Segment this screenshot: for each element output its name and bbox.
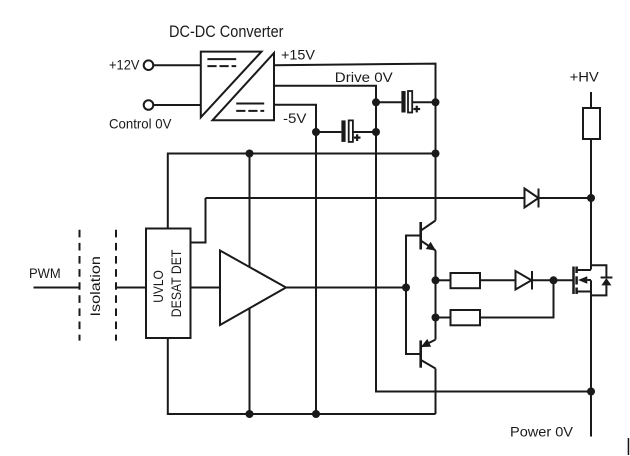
transistor Q1 emitter arrow [426, 242, 436, 251]
wire PWM input [34, 287, 80, 289]
wire top resistor to gate diode [480, 279, 516, 281]
transistor Q1 base bar [419, 222, 422, 250]
svg-text:Isolation: Isolation [87, 256, 103, 316]
node gate [550, 276, 558, 284]
wire amp supply vertical [249, 154, 251, 415]
DC-DC converter U1 upper triangle [201, 52, 262, 118]
resistor R2 [451, 310, 481, 325]
svg-text:DC-DC Converter: DC-DC Converter [169, 22, 284, 41]
diode D2 gate [516, 271, 532, 290]
wire push-pull output node [435, 250, 437, 339]
wire Control 0V input [154, 104, 201, 106]
node cap C2 left [372, 98, 380, 106]
svg-text:PWM: PWM [29, 265, 61, 281]
svg-text:+HV: +HV [570, 69, 600, 85]
svg-text:UVLO: UVLO [150, 270, 166, 303]
MOSFET M1 channel segments [575, 267, 578, 274]
svg-text:Power 0V: Power 0V [510, 423, 574, 439]
UVLO / DESAT DET box U2 [146, 229, 191, 339]
wire base vertical [406, 236, 421, 355]
DC symbol output solid line [236, 103, 264, 105]
wire isolation to UVLO box [116, 287, 146, 289]
capacitor C2 plate positive [401, 91, 405, 113]
svg-text:Control 0V: Control 0V [109, 115, 172, 131]
capacitor C2 plus sign [413, 108, 420, 110]
wire gate diode to gate [533, 279, 574, 281]
wire +15V distribution rail [168, 154, 436, 229]
wire PNP collector to rail [435, 369, 437, 415]
node source power0v [587, 388, 595, 396]
svg-text:DESAT DET: DESAT DET [168, 249, 184, 317]
node bottom rail amp [246, 410, 254, 418]
node amp output base [402, 284, 410, 292]
wire +15V rail [274, 64, 436, 221]
transistor Q2 emitter arrow [421, 339, 431, 347]
wire HV resistor to drain [590, 139, 592, 270]
wire desat step from UVLO box [191, 198, 206, 243]
resistor R1 [451, 273, 481, 288]
diode D1 desat [525, 189, 539, 208]
node push-pull bottom [432, 314, 440, 322]
wire desat line to diode [206, 197, 525, 199]
MOSFET M1 gate bar [572, 267, 575, 295]
DC symbol output dashed line [236, 110, 264, 112]
DC symbol input solid line [207, 58, 236, 60]
node push-pull top [432, 276, 440, 284]
op-amp buffer U3 [220, 251, 286, 326]
MOSFET M1 body diode branch [591, 265, 606, 277]
transistor Q2 base bar [419, 340, 422, 367]
DC symbol input dashed line [207, 65, 236, 67]
node cap C1 left [312, 128, 320, 136]
wire bottom resistor return [480, 280, 554, 317]
body diode triangle [601, 278, 611, 285]
cursor artifact bottom right [628, 438, 630, 455]
wire Drive 0V rail [274, 86, 591, 392]
wire cap C2 left lead [376, 101, 401, 103]
wire -5V rail [274, 105, 316, 414]
capacitor C1 plate negative [349, 120, 353, 141]
wire cap C1 left lead [316, 131, 341, 133]
MOSFET M1 source lead [577, 291, 591, 293]
capacitor C1 plus sign [354, 106, 420, 141]
transistor Q2 emitter [421, 340, 436, 347]
DC-DC converter U1 lower triangle [213, 53, 275, 120]
capacitor C2 plate negative [408, 91, 412, 113]
MOSFET M1 bulk arrow [578, 276, 587, 284]
wire diode to HV rail [539, 197, 592, 199]
svg-text:+15V: +15V [281, 47, 316, 63]
wire bottom resistor left lead [436, 317, 451, 319]
svg-text:+12V: +12V [109, 57, 140, 73]
wire amp output to bases [286, 287, 406, 289]
capacitor C1 plate positive [341, 120, 345, 141]
wire cap C1 right lead [353, 131, 376, 133]
node desat diode HV [587, 194, 595, 202]
resistor R3 HV sense [583, 108, 600, 139]
node cap C1 right [372, 128, 380, 136]
svg-text:-5V: -5V [283, 110, 307, 126]
terminal +12V [144, 60, 154, 70]
isolation barrier dashed line right [115, 228, 117, 340]
wire top resistor left lead [436, 279, 451, 281]
node cap C2 right [432, 98, 440, 106]
terminal Control 0V [144, 100, 154, 110]
wire +12V input [154, 64, 201, 66]
body diode bar [601, 277, 613, 279]
wire +HV stub [590, 92, 592, 108]
node rail amp [246, 150, 254, 158]
transistor Q1 emitter [421, 241, 436, 251]
wire source to Power 0V [590, 280, 592, 436]
wire cap C2 right lead [412, 101, 435, 103]
MOSFET M1 drain lead [577, 269, 591, 271]
wire UVLO box to amp [191, 287, 221, 289]
node rail +15V [432, 150, 440, 158]
node bottom rail -5V [312, 410, 320, 418]
svg-text:Drive 0V: Drive 0V [335, 69, 394, 85]
isolation barrier dashed line left [79, 228, 81, 340]
transistor Q2 collector [421, 360, 436, 369]
wire bottom -5V rail [168, 338, 436, 414]
transistor Q1 collector [421, 221, 436, 231]
